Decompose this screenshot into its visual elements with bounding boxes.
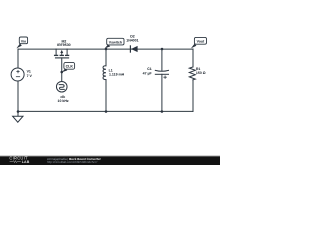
- wire gate to clk: [61, 58, 63, 82]
- node CLK attach: [60, 71, 63, 74]
- svg-text:1.119 mH: 1.119 mH: [109, 73, 125, 77]
- wire V1 branch lower: [17, 81, 19, 112]
- wire top rail: [18, 48, 193, 50]
- inductor L1: [103, 49, 106, 112]
- wire V1 branch upper: [17, 49, 19, 68]
- wire ground stub: [17, 112, 19, 117]
- wire R1 branch upper: [192, 49, 194, 67]
- node Vswitch junction top: [105, 48, 108, 51]
- svg-text:7 V: 7 V: [27, 74, 33, 78]
- svg-text:47 µF: 47 µF: [143, 71, 153, 75]
- svg-text:Vout: Vout: [197, 40, 205, 44]
- node C1 top junction: [161, 48, 164, 51]
- diode D2: [130, 46, 137, 52]
- svg-text:1N4001: 1N4001: [126, 38, 138, 42]
- transistor M2 (PMOS): [55, 49, 69, 58]
- svg-text:LAB: LAB: [22, 160, 30, 164]
- node L1 bottom junction: [105, 110, 108, 113]
- wire R1 branch lower: [192, 80, 194, 112]
- svg-text:150 Ω: 150 Ω: [196, 71, 206, 75]
- capacitor C1: [155, 49, 168, 112]
- wire bottom rail: [18, 110, 193, 112]
- svg-text:V1: V1: [27, 70, 31, 74]
- ground: [13, 116, 23, 122]
- svg-text:10 kHz: 10 kHz: [58, 99, 69, 103]
- svg-text:Vin: Vin: [21, 39, 26, 43]
- flag Vin pointer and box: [16, 37, 27, 48]
- flag CLK pointer and box: [62, 62, 75, 72]
- svg-text:CLK: CLK: [66, 64, 74, 68]
- node V1 bottom junction: [17, 110, 20, 113]
- node C1 bottom junction: [161, 110, 164, 113]
- flag Vout pointer and box: [191, 37, 207, 48]
- resistor R1: [189, 67, 195, 80]
- svg-text:http://circuitlab.com/c6bb59db: http://circuitlab.com/c6bb59db4dc5c7/: [47, 160, 98, 164]
- svg-text:IRF9530: IRF9530: [57, 43, 70, 47]
- svg-text:Vswitch: Vswitch: [109, 40, 122, 44]
- footer bar: [0, 156, 220, 165]
- voltage source V1: [11, 68, 24, 81]
- flag Vswitch pointer and box: [105, 38, 124, 48]
- clock source clk: [56, 81, 67, 92]
- footer logo CIRCUITLAB: [9, 156, 29, 164]
